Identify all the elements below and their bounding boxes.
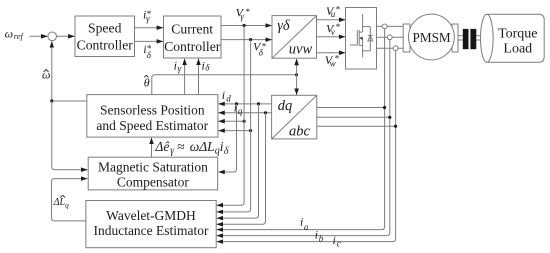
svg-text:dq: dq — [278, 98, 293, 114]
wire i_d dq to sensorless — [219, 103, 272, 105]
svg-text:≈: ≈ — [177, 139, 184, 154]
svg-text:ωΔL: ωΔL — [190, 139, 215, 154]
junction dot omega-hat — [50, 99, 53, 102]
svg-text:ω: ω — [5, 26, 13, 40]
label delta-L-hat-q — [53, 197, 69, 209]
wire omega-hat out of sensorless estimator — [52, 100, 87, 102]
wire i_gamma up into current controller — [184, 59, 186, 95]
svg-text:γ: γ — [178, 64, 182, 74]
wire theta-hat up into uvw box — [296, 59, 298, 75]
svg-text:Compensator: Compensator — [117, 175, 189, 190]
wire V*gamma branch into sensorless — [219, 120, 245, 122]
svg-text:γ: γ — [146, 14, 150, 24]
current sensor circle phase v — [387, 35, 392, 40]
svg-text:i: i — [333, 233, 336, 247]
junction dot i_d to compensator — [235, 102, 238, 105]
wire V*gamma drop to wavelet estimator — [217, 26, 244, 206]
wire V*w to inverter — [317, 52, 346, 54]
wire V*delta branch into sensorless — [219, 130, 251, 132]
svg-text:Δê: Δê — [154, 139, 169, 154]
wire i_d drop to wavelet estimator — [217, 104, 259, 218]
gamma-delta / uvw transform box — [272, 16, 317, 59]
wire phase u inverter to motor — [377, 25, 404, 27]
svg-text:i: i — [222, 88, 225, 102]
wire phase v inverter to motor — [377, 36, 404, 38]
wire summing junction to speed controller — [57, 35, 75, 37]
svg-text:*: * — [262, 41, 267, 51]
wire V*v to inverter — [317, 36, 346, 38]
svg-text:*: * — [335, 53, 340, 63]
summing junction — [48, 32, 57, 41]
wire omega_ref to summing junction — [30, 35, 48, 37]
torque load cylinder body — [487, 14, 544, 62]
label i*gamma — [143, 7, 152, 23]
label i_c — [333, 233, 341, 248]
wire i*delta to current controller — [135, 40, 163, 42]
label V*delta — [253, 39, 267, 57]
wire theta-hat sensorless to transform blocks — [152, 75, 297, 95]
svg-text:a: a — [304, 222, 309, 232]
sensorless position and speed estimator box — [87, 95, 218, 138]
wire omega-hat up into summing junction — [51, 41, 53, 101]
svg-text:Sensorless Position: Sensorless Position — [100, 102, 205, 117]
junction dot V*gamma — [243, 24, 246, 27]
magnetic saturation compensator box — [88, 157, 218, 190]
label V*w — [325, 53, 340, 69]
label V*gamma — [236, 5, 251, 21]
wire i_delta up into current controller — [198, 59, 200, 95]
junction dot i_d to wavelet — [257, 102, 260, 105]
wire omega-hat branch to compensator — [52, 101, 88, 170]
wire V*delta to gamma-delta box — [221, 39, 272, 41]
svg-text:Wavelet-GMDH: Wavelet-GMDH — [106, 208, 196, 223]
label V*v — [326, 21, 341, 37]
IGBT arrow — [359, 37, 362, 40]
svg-text:Torque: Torque — [498, 26, 537, 41]
wire i_d branch down into compensator right edge — [219, 104, 237, 172]
label i_b — [315, 228, 324, 244]
wire phase c sensed current wrap to wavelet estimator — [217, 51, 396, 242]
inverter box — [346, 8, 377, 70]
label delta-e-gamma equation — [154, 139, 229, 157]
svg-text:and Speed Estimator: and Speed Estimator — [96, 118, 208, 133]
svg-text:i: i — [174, 58, 177, 72]
svg-text:v: v — [331, 27, 335, 37]
wire i*gamma to current controller — [135, 27, 163, 29]
inverter diode — [368, 27, 373, 51]
svg-text:θ: θ — [144, 76, 150, 90]
svg-text:*: * — [246, 7, 251, 17]
svg-text:ref: ref — [14, 31, 25, 41]
junction dot theta-hat — [295, 73, 298, 76]
wire V*delta drop to wavelet estimator — [217, 40, 251, 212]
inverter IGBT transistor — [350, 14, 370, 58]
current sensor circle phase u — [382, 24, 387, 29]
wire theta-hat down into dq box — [296, 75, 298, 95]
svg-text:uvw: uvw — [289, 42, 313, 58]
wire phase w inverter to motor — [377, 47, 404, 49]
coupling bar 1 — [463, 29, 469, 49]
svg-text:i: i — [300, 214, 303, 228]
svg-text:d: d — [226, 93, 231, 103]
wire V*gamma to gamma-delta box — [221, 25, 272, 27]
label i_delta — [202, 58, 211, 72]
svg-text:Speed: Speed — [88, 21, 122, 36]
label omega_ref — [5, 26, 25, 41]
wire phase a sensed current wrap to wavelet estimator — [217, 29, 385, 230]
torque load cylinder left ellipse — [481, 14, 494, 62]
wire dq to phase c sense line — [317, 125, 396, 127]
wire V*u to inverter — [317, 19, 346, 21]
svg-text:q: q — [238, 106, 243, 116]
wire dq to phase b sense line — [317, 116, 390, 118]
wire delta-e-gamma compensator to sensorless — [151, 138, 153, 157]
svg-text:b: b — [319, 233, 324, 243]
svg-text:δ: δ — [224, 146, 229, 157]
svg-text:*: * — [336, 22, 341, 32]
svg-text:*: * — [336, 5, 341, 15]
junction dot V*delta — [249, 38, 252, 41]
svg-text:γ: γ — [240, 12, 244, 22]
svg-text:ΔL: ΔL — [53, 197, 66, 208]
svg-text:c: c — [337, 238, 341, 248]
wire phase b sensed current wrap to wavelet estimator — [217, 40, 390, 236]
svg-text:Magnetic Saturation: Magnetic Saturation — [98, 160, 208, 175]
motor left end plate — [403, 24, 410, 52]
svg-text:abc: abc — [289, 123, 311, 139]
label i_q — [234, 101, 243, 116]
svg-text:Current: Current — [171, 22, 213, 37]
label i_d — [222, 88, 232, 103]
coupling bar 2 — [470, 29, 476, 49]
PMSM motor circle — [409, 14, 455, 60]
svg-text:q: q — [65, 200, 69, 209]
svg-text:Controller: Controller — [164, 39, 221, 54]
wire i_q drop to wavelet estimator — [217, 113, 266, 225]
label i_a — [300, 214, 309, 232]
junction dot i_q to wavelet — [264, 111, 267, 114]
svg-text:Controller: Controller — [77, 38, 134, 53]
dq/abc transform box — [272, 95, 317, 139]
svg-text:PMSM: PMSM — [413, 30, 451, 45]
label i*delta — [143, 42, 152, 60]
wire delta-L-hat-q wavelet to compensator — [52, 179, 88, 221]
speed controller box — [75, 16, 135, 57]
svg-text:i: i — [315, 228, 318, 242]
wire i_q dq to sensorless — [219, 112, 272, 114]
svg-text:γδ: γδ — [277, 18, 290, 34]
svg-text:Load: Load — [503, 42, 532, 57]
shaft motor to coupling — [458, 35, 463, 37]
svg-text:Inductance Estimator: Inductance Estimator — [93, 223, 209, 238]
label i_gamma — [174, 58, 182, 73]
label V*u — [326, 4, 341, 19]
wavelet-GMDH inductance estimator box — [86, 201, 216, 248]
current sensor circle phase w — [393, 46, 398, 51]
motor right end plate — [452, 24, 458, 52]
wire dq to phase a sense line — [317, 107, 385, 109]
current controller box — [164, 16, 222, 58]
shaft coupling to load — [476, 35, 481, 37]
